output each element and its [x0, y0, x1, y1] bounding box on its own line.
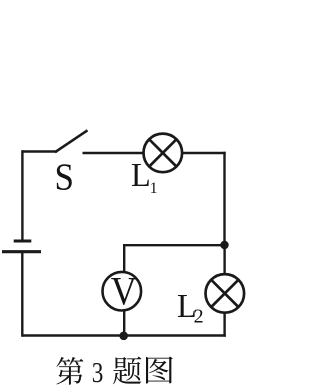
- svg-text:2: 2: [194, 306, 204, 328]
- wire: left vertical from bottom corner up to battery positive plate: [21, 252, 23, 337]
- wire: top-left horizontal from battery corner to switch pivot: [22, 150, 57, 152]
- wire: right vertical from top corner down to node A: [223, 152, 225, 245]
- battery positive plate (long): [2, 250, 41, 253]
- svg-text:3: 3: [92, 357, 104, 389]
- wire: node A down to lamp L2: [223, 245, 225, 275]
- caption char 1: 第: [56, 357, 83, 385]
- svg-text:1: 1: [150, 180, 158, 197]
- lamp L2 circle: [206, 274, 245, 313]
- lamp L1 cross stroke 1: [149, 139, 176, 166]
- caption char 3: 题: [113, 357, 141, 385]
- svg-text:S: S: [54, 155, 73, 198]
- svg-text:L: L: [131, 156, 151, 194]
- lamp L1 circle: [144, 134, 183, 173]
- lamp L1 cross stroke 2: [149, 139, 176, 166]
- wire: lamp L2 bottom down to bottom-right corner: [223, 313, 225, 337]
- lamp L2 cross stroke 2: [211, 280, 238, 307]
- node B junction dot (bottom wire below voltmeter): [119, 332, 128, 341]
- lamp L2 cross stroke 1: [211, 280, 238, 307]
- voltmeter V circle: [103, 272, 142, 311]
- wire: voltmeter branch vertical down to V meter: [123, 244, 125, 273]
- wire: voltmeter branch horizontal from node A to left: [124, 244, 225, 246]
- caption char 4: 图: [146, 357, 173, 384]
- wire: bottom horizontal: [22, 334, 226, 336]
- wire: voltmeter bottom to node B: [123, 310, 125, 336]
- switch S blade (open, angled up-right): [55, 130, 88, 152]
- svg-text:V: V: [111, 270, 137, 314]
- node A junction dot (right, between L1 and L2): [220, 241, 228, 249]
- wire: lamp L1 to top-right corner: [182, 152, 226, 154]
- battery negative plate (short): [14, 240, 32, 243]
- wire: switch right contact to lamp L1: [83, 152, 145, 155]
- wire: left vertical from battery negative plate up to top-left corner: [21, 150, 23, 241]
